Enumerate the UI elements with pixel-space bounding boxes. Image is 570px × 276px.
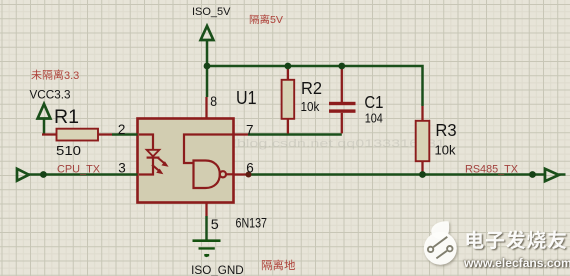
svg-text:3: 3	[118, 161, 126, 176]
svg-text:10k: 10k	[301, 99, 320, 114]
svg-text:CPU_TX: CPU_TX	[57, 164, 101, 176]
svg-text:R3: R3	[435, 120, 456, 140]
svg-text:RS485_TX: RS485_TX	[465, 163, 519, 175]
svg-text:2: 2	[118, 122, 126, 137]
svg-text:R2: R2	[301, 78, 322, 98]
svg-text:7: 7	[246, 123, 254, 138]
svg-text:5V: 5V	[270, 14, 283, 26]
svg-text:104: 104	[365, 110, 383, 125]
svg-text:ISO_GND: ISO_GND	[191, 265, 244, 276]
svg-text:6N137: 6N137	[236, 215, 268, 231]
svg-text:5: 5	[211, 217, 219, 232]
svg-text:VCC3.3: VCC3.3	[30, 90, 71, 102]
svg-text:ISO_5V: ISO_5V	[192, 6, 231, 18]
svg-text:8: 8	[210, 94, 217, 109]
svg-text:3.3: 3.3	[64, 70, 79, 82]
svg-text:C1: C1	[364, 92, 383, 112]
svg-text:U1: U1	[236, 88, 257, 108]
svg-text:6: 6	[246, 161, 254, 176]
svg-text:R1: R1	[54, 107, 79, 128]
svg-text:10k: 10k	[435, 142, 456, 157]
svg-text:510: 510	[56, 143, 81, 158]
